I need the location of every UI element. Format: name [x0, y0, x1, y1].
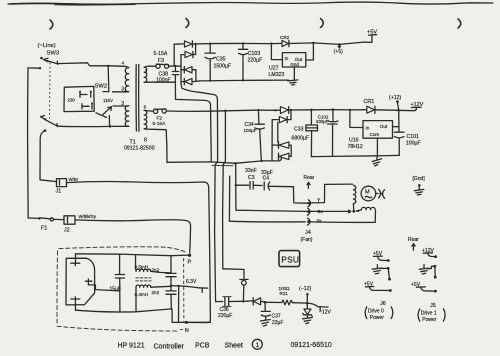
svg-text:5-15A: 5-15A — [153, 121, 167, 127]
registration mark 2 — [186, 19, 189, 28]
wire SW3 to SW2/transformer top rail — [58, 63, 108, 66]
svg-text:C37: C37 — [272, 314, 281, 320]
node P — [188, 254, 191, 257]
svg-text:U16: U16 — [349, 138, 359, 144]
fan blades — [376, 189, 385, 198]
registration mark 3 — [321, 19, 324, 28]
junction node bridge2 in — [275, 109, 277, 111]
wire (+12) stem — [397, 102, 398, 111]
feedthrough bubble — [242, 281, 247, 286]
diode bridge1 D4 — [181, 78, 196, 84]
node J5 pin2 — [434, 265, 437, 268]
svg-text:W/Br: W/Br — [69, 177, 79, 182]
wire F1 to J2 — [53, 218, 64, 220]
wire 12V section bottom rail — [311, 155, 399, 156]
wire V6 to J4 bottom — [229, 176, 305, 222]
tube grid electrode — [85, 279, 92, 285]
wire lower AC rail — [167, 157, 281, 163]
junction node -12V — [306, 302, 309, 305]
wire choke to junction — [352, 204, 354, 211]
wire F3 to bridge node — [169, 65, 181, 67]
diode CR3 — [243, 298, 265, 305]
wire vertical V1 — [210, 104, 213, 162]
svg-text:Rear: Rear — [408, 237, 419, 243]
diode bridge2 D2 — [272, 110, 291, 123]
wire secondary1 top to F3 — [144, 66, 155, 67]
op-amp U27 regulator box — [282, 53, 305, 67]
svg-text:C33: C33 — [294, 127, 304, 133]
wire F2 to bridge2 — [166, 110, 280, 111]
node J5 pin1 — [434, 255, 437, 258]
wire lower pole to SW2 bottom rail — [58, 125, 111, 127]
arrow Bu wire end — [305, 210, 351, 213]
diode bridge1 D3 — [181, 67, 196, 82]
wire J4 Br to fan coil — [311, 210, 376, 222]
svg-text:SW3: SW3 — [47, 51, 60, 57]
junction node C33 top — [310, 109, 312, 111]
capacitor C5 15uF — [115, 254, 124, 312]
svg-text:115V: 115V — [103, 98, 113, 103]
svg-text:3: 3 — [121, 101, 124, 107]
inductor fan winding horizontal — [361, 207, 375, 209]
junction node SW2 bottom — [109, 125, 111, 127]
motor M1 — [361, 186, 376, 201]
junction node U27 in — [270, 42, 272, 44]
svg-text:15µF: 15µF — [110, 287, 122, 293]
junction node C38 top — [174, 65, 176, 67]
diode bridge1 D1 — [185, 41, 193, 47]
terminal +12V J5 pin1 — [423, 253, 435, 257]
arrow (+5) pointer — [338, 45, 340, 48]
svg-text:PCB: PCB — [195, 343, 210, 350]
svg-text:100µF: 100µF — [406, 141, 421, 147]
svg-text:(+12): (+12) — [389, 95, 402, 101]
svg-text:100nF: 100nF — [156, 78, 171, 84]
wire to R21 — [265, 301, 282, 303]
capacitor C36 — [223, 297, 244, 307]
capacitor C6 2n2 upper — [166, 256, 176, 286]
svg-text:W/Blk/Gy: W/Blk/Gy — [79, 214, 97, 219]
svg-text:Rear: Rear — [304, 175, 315, 181]
svg-text:5-15A: 5-15A — [154, 51, 168, 57]
wire rail double stroke — [212, 164, 233, 166]
wire vertical V3 with rail jog — [223, 111, 226, 269]
terminal -12V — [318, 307, 328, 311]
zener VR1 — [303, 303, 313, 317]
diode bridge2 D1 — [280, 107, 288, 114]
label (Drive 1 Power) — [418, 309, 445, 323]
svg-text:CR1: CR1 — [364, 99, 375, 105]
capacitor C4 — [264, 182, 308, 203]
wire bottom rail to T1 primary bottom — [110, 125, 129, 127]
wire C3 branch from V5 — [236, 184, 249, 186]
svg-text:M: M — [365, 190, 370, 196]
svg-text:+12V: +12V — [411, 102, 424, 108]
svg-text:09121-66510: 09121-66510 — [291, 342, 332, 349]
terminal +12V — [411, 106, 421, 108]
wire T2 secondary right link — [151, 285, 171, 288]
junction node motor return — [352, 210, 355, 213]
switch SW3 — [40, 57, 57, 65]
junction node C3 branch — [235, 184, 237, 186]
svg-text:6800µF: 6800µF — [292, 136, 310, 142]
SW2 wiper arrow — [96, 107, 112, 118]
feedthrough crossbar — [240, 278, 248, 280]
svg-text:R21: R21 — [280, 291, 289, 296]
junction node rail J4 drop — [234, 162, 237, 165]
diode bridge1 D2 — [181, 44, 196, 58]
svg-text:1500µF: 1500µF — [214, 64, 232, 70]
junction node bridge2 plus — [290, 109, 292, 111]
ground bridge1 rail — [288, 80, 298, 85]
svg-text:220µF: 220µF — [248, 57, 263, 63]
switch SW1 lower mains pole — [41, 116, 58, 127]
wire J5 bracket — [434, 266, 436, 277]
svg-text:J5: J5 — [430, 303, 436, 309]
capacitor C33 — [306, 110, 318, 157]
tube V1 display outline — [66, 258, 95, 305]
svg-text:2n2: 2n2 — [152, 268, 160, 273]
transformer T1 secondary winding 1 — [144, 67, 147, 82]
dashed enclosure PSU assembly — [57, 247, 186, 331]
tube top electrode — [71, 258, 80, 265]
junction node at x108 top rail — [107, 65, 109, 67]
capacitor C35 — [205, 44, 215, 81]
capacitor C101 — [394, 132, 404, 155]
fuse F3 — [156, 64, 169, 68]
svg-text:(Fan): (Fan) — [301, 237, 313, 243]
diode bridge2 D4 — [279, 153, 292, 159]
registration mark 1 — [50, 20, 53, 29]
wire U27 input drop — [271, 44, 282, 60]
svg-text:+5V: +5V — [367, 30, 377, 36]
svg-text:(~Line): (~Line) — [38, 43, 56, 49]
ground C37 — [260, 320, 270, 327]
svg-text:Out: Out — [380, 124, 388, 129]
svg-text:(−12): (−12) — [299, 286, 312, 292]
inductor motor choke vertical — [353, 185, 355, 203]
svg-text:Drive 0: Drive 0 — [368, 308, 384, 314]
wire bubble down to C36 line — [242, 285, 244, 301]
svg-text:Controller: Controller — [154, 344, 185, 351]
svg-text:1: 1 — [145, 69, 148, 74]
ground legend symbol — [414, 185, 424, 195]
node J6 pin2 — [387, 267, 390, 270]
svg-text:−12V: −12V — [319, 310, 331, 316]
wire J4 Y to motor — [311, 184, 353, 203]
svg-text:1: 1 — [256, 342, 260, 349]
svg-text:F2: F2 — [157, 116, 163, 122]
svg-text:J1: J1 — [56, 189, 62, 195]
svg-text:P: P — [188, 260, 192, 266]
svg-text:2n2: 2n2 — [152, 290, 160, 295]
svg-text:100µF: 100µF — [244, 128, 257, 133]
wire tube top stub — [75, 254, 77, 258]
arrow fan winding to junction — [356, 210, 361, 212]
wire winding1 return drop to vertical V1 — [175, 82, 210, 104]
svg-text:In: In — [366, 126, 370, 131]
ground J5 pin2 — [419, 265, 434, 274]
SW2 contacts upper — [79, 91, 92, 98]
junction node left branch — [39, 67, 41, 69]
title sheet number circled 1 — [252, 339, 262, 349]
svg-text:220µF: 220µF — [218, 313, 232, 319]
junction node C35 top — [209, 43, 211, 45]
connector J2 — [64, 216, 75, 224]
wire U27 gnd stem — [293, 67, 295, 80]
svg-text:3: 3 — [121, 87, 124, 93]
wire (-12) stem — [306, 294, 308, 303]
svg-text:Sheet: Sheet — [225, 343, 243, 350]
diode CR2 — [282, 40, 289, 46]
wire CR2 to +5V terminal — [289, 42, 372, 44]
junction node C102 top — [332, 108, 334, 110]
svg-text:4: 4 — [122, 61, 125, 66]
inductor T2 secondary — [136, 285, 151, 287]
svg-text:Br: Br — [317, 219, 322, 224]
terminal +5V — [368, 35, 376, 43]
capacitor C34 — [255, 110, 265, 161]
node J6 pin1 — [387, 259, 390, 262]
junction node tap upper — [124, 91, 126, 93]
svg-text:F1: F1 — [41, 226, 47, 232]
svg-text:33nF: 33nF — [245, 168, 257, 174]
tube bottom electrode — [71, 297, 80, 310]
transformer T1 secondary winding 2 — [144, 110, 147, 128]
wire U16 in drop — [350, 110, 363, 128]
junction node N drop — [178, 285, 180, 287]
wire C101 top lead — [398, 110, 400, 131]
wire left branch to main rail — [28, 67, 40, 69]
wire vertical V2 with rail jog — [215, 99, 218, 302]
node J6 pin4 — [389, 289, 392, 292]
svg-text:330µF: 330µF — [316, 119, 329, 124]
junction node +5 tap — [338, 43, 340, 45]
wire V5 to J4 middle — [236, 163, 305, 211]
wire +5V rail from bridge1 — [192, 42, 282, 45]
node gnd legend dot — [418, 184, 421, 187]
junction node C36 out — [242, 300, 244, 302]
terminal +5V J6 pin1 — [373, 256, 387, 260]
svg-text:Drive 1: Drive 1 — [421, 311, 437, 317]
svg-text:U27: U27 — [269, 66, 279, 72]
arrow rear J5 — [412, 244, 415, 251]
wire x109 from top rail into selector — [107, 66, 110, 91]
label (Drive 0 Power) — [365, 307, 393, 321]
switch SW2 voltage selector box — [64, 86, 94, 111]
capacitor C38 — [172, 66, 178, 82]
bridge2 inner rail — [277, 122, 279, 142]
terminal +5V J5 pin4 — [416, 287, 434, 291]
regulator U16 box — [363, 121, 393, 139]
transformer T1 primary winding lower — [125, 106, 129, 127]
svg-text:22µF: 22µF — [272, 320, 284, 326]
junction node rail C34 — [260, 160, 262, 162]
svg-text:C35: C35 — [216, 57, 226, 63]
wire grid to 15uF node — [88, 285, 119, 291]
svg-text:LM323: LM323 — [269, 72, 285, 78]
svg-text:78H12: 78H12 — [348, 144, 363, 150]
wire junction to T1 primary top, pin 4 — [108, 66, 129, 68]
junction node U27 out — [312, 42, 314, 44]
svg-text:09121-82500: 09121-82500 — [124, 146, 155, 152]
svg-text:(+5): (+5) — [334, 49, 344, 55]
wire U16 com stem — [376, 138, 378, 156]
wire PSU top rail to P — [76, 254, 189, 256]
node J5 pin4 — [434, 290, 437, 293]
svg-text:J2: J2 — [64, 228, 70, 234]
wire PSU bottom rail to N — [172, 321, 210, 323]
T1 primary tap wire upper, pin 3 — [113, 91, 129, 93]
junction node D2 out — [195, 43, 197, 45]
svg-text:6.3V: 6.3V — [186, 279, 197, 285]
wire T2 primary right to cap chain — [151, 271, 171, 273]
wire CR1 to +12V — [375, 108, 417, 111]
wire R21 to -12V node — [293, 302, 308, 304]
ground U16 — [372, 156, 381, 166]
junction node C35 bottom — [209, 80, 211, 82]
connector J1 — [57, 179, 67, 187]
fuse F1 — [28, 217, 53, 221]
diode bridge2 D3 — [272, 142, 291, 156]
wire selector common down — [108, 116, 110, 127]
mechanical link dotted SW3-SW1 — [49, 63, 52, 118]
node J6 pin3 — [388, 278, 391, 281]
junction node to J1 drop — [44, 129, 47, 132]
diode CR1 — [367, 106, 375, 113]
capacitor C37 — [261, 302, 270, 319]
connector J4 contact Br — [307, 218, 310, 225]
connector J4 contact Y — [308, 200, 311, 207]
svg-text:HP 9121: HP 9121 — [118, 343, 145, 350]
inverter transformer T2 primary drop — [135, 255, 137, 270]
junction node +12 — [397, 109, 400, 112]
wire bridge2 out rail — [289, 109, 367, 111]
junction node C37 tap — [264, 301, 267, 304]
T1 primary tap wire lower, pin 3 — [113, 105, 129, 107]
svg-text:Power: Power — [370, 315, 385, 321]
connector J4 contact Bu — [307, 208, 310, 215]
svg-text:C101: C101 — [407, 134, 420, 140]
svg-text:Com: Com — [370, 132, 380, 137]
wire bridge1 minus rail to ground — [196, 80, 289, 81]
junction node 6.3V tap — [170, 285, 172, 287]
wire T2 secondary left drop — [135, 287, 137, 312]
wire bridge1 bottom drop to vertical V2 — [181, 84, 217, 99]
svg-text:Gnd: Gnd — [291, 62, 300, 67]
wire left mains rail — [27, 68, 30, 218]
inductor T2 primary — [136, 269, 151, 271]
svg-text:SW2: SW2 — [95, 84, 108, 90]
svg-text:C36: C36 — [220, 307, 229, 313]
svg-text:CR2: CR2 — [280, 35, 290, 40]
T2 core dashes — [136, 278, 151, 281]
wire J2 to P node — [75, 220, 191, 253]
svg-text:N: N — [185, 328, 189, 334]
svg-text:8: 8 — [144, 138, 147, 144]
wire long vertical J1 to N rail — [183, 188, 211, 323]
wire -12V to terminal — [307, 303, 318, 307]
wire secondary1 bottom return — [144, 81, 175, 83]
wire N branch down — [178, 286, 180, 323]
wire -12V feed line — [216, 301, 223, 303]
capacitor C103 — [239, 44, 248, 81]
capacitor C102 — [328, 110, 338, 157]
wire V3 to feedthrough — [223, 269, 244, 278]
junction node V3 top — [224, 110, 226, 112]
wire secondary2 top to F2 — [144, 109, 153, 112]
node J5 pin3 — [434, 276, 437, 279]
svg-text:C4: C4 — [263, 175, 270, 181]
svg-text:C3: C3 — [248, 175, 255, 181]
svg-text:6: 6 — [144, 105, 147, 110]
junction node C103 bottom — [242, 79, 244, 81]
wire J1 to long vertical — [67, 182, 209, 188]
svg-text:J6: J6 — [380, 301, 386, 307]
svg-text:PSU: PSU — [281, 255, 299, 265]
svg-text:230: 230 — [68, 97, 76, 102]
wire secondary2 bottom return to lower rail — [144, 129, 167, 163]
wire J6 bracket — [388, 269, 389, 280]
wire U27 out — [306, 43, 314, 60]
transformer T1 primary winding upper — [125, 68, 129, 92]
node (-12) dot — [306, 293, 308, 295]
bridge1 left rail lower — [180, 55, 182, 84]
ground J6 pin2 — [372, 265, 387, 274]
registration mark 4 — [458, 19, 461, 28]
bridge1 left rail upper — [174, 44, 184, 66]
svg-text:Power: Power — [422, 317, 437, 323]
svg-text:F3: F3 — [158, 58, 164, 64]
node N — [185, 321, 188, 324]
terminal 6.3V — [198, 288, 208, 293]
node (+12) dot — [396, 100, 399, 103]
junction node U16 in — [349, 109, 351, 111]
T1 core — [136, 64, 139, 131]
fuse F2 — [154, 109, 167, 114]
junction node C34 top — [257, 109, 259, 111]
wire PSU inside bottom rail — [76, 309, 173, 323]
scan edge artifact top — [8, 2, 493, 5]
wire U16 out link — [393, 126, 399, 128]
svg-text:J4: J4 — [305, 230, 311, 236]
junction node C103 top — [242, 42, 244, 44]
resistor R21 — [282, 300, 293, 305]
svg-text:In: In — [285, 56, 289, 61]
wire 6.3V tap — [171, 286, 198, 288]
PSU label box — [279, 251, 300, 267]
ground VR1 — [303, 318, 313, 324]
terminal +5V J6 pin4 — [365, 287, 389, 291]
svg-text:C103: C103 — [248, 51, 261, 57]
capacitor C7 2n2 lower — [166, 286, 176, 310]
wire selector short link — [103, 91, 109, 93]
bridge2 left rail — [271, 120, 273, 161]
wire down to J1 — [40, 131, 57, 182]
arrow rear fan — [307, 182, 310, 188]
SW2 contacts lower — [82, 102, 93, 109]
capacitor C3 — [250, 182, 262, 190]
svg-text:[Gnd]: [Gnd] — [413, 176, 426, 182]
